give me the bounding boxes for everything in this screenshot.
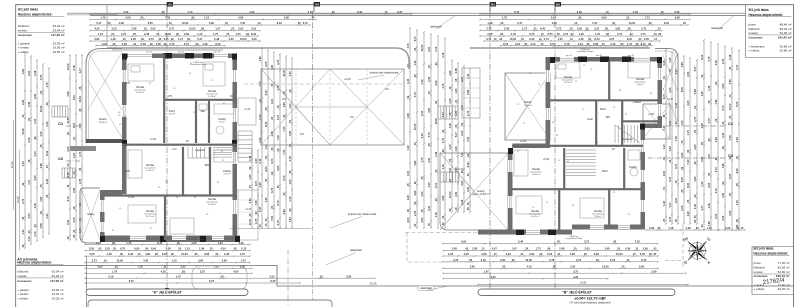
- svg-text:földszint:: földszint:: [18, 24, 30, 28]
- svg-text:Hasznos alapterületek:: Hasznos alapterületek:: [749, 13, 784, 17]
- svg-text:48,46 m²: 48,46 m²: [780, 22, 792, 26]
- building B wall right upper: [658, 57, 663, 128]
- dimension chain top row4 left: [89, 27, 261, 32]
- svg-text:Lépcső: Lépcső: [623, 137, 632, 141]
- svg-text:3,73: 3,73: [434, 183, 438, 189]
- svg-text:65,83 m²: 65,83 m²: [778, 266, 790, 270]
- svg-text:emelet:: emelet:: [18, 29, 28, 33]
- garage roof ridge: [296, 106, 367, 108]
- eave line above A facade: [112, 49, 223, 51]
- svg-text:53,94 m²: 53,94 m²: [52, 274, 64, 278]
- dimension chain right col6: [693, 59, 698, 225]
- svg-text:2,78: 2,78: [721, 58, 725, 64]
- dimension chain mid-left col7: [248, 149, 253, 229]
- building A windows: [100, 54, 237, 241]
- property boundary line top: [67, 13, 746, 15]
- building A terrace right: [238, 190, 258, 240]
- svg-text:1,47: 1,47: [700, 205, 704, 211]
- note csapadékvíz B top: [577, 49, 594, 53]
- B garage roof outline: [440, 153, 508, 230]
- garage roof dashed joints: [296, 69, 367, 145]
- svg-text:+3,15: +3,15: [245, 208, 252, 211]
- svg-text:3,10: 3,10: [427, 205, 431, 211]
- svg-text:pmc 20: pmc 20: [214, 52, 220, 54]
- svg-text:4,10: 4,10: [33, 118, 37, 124]
- svg-text:3,10: 3,10: [288, 71, 292, 77]
- svg-text:1,75: 1,75: [707, 118, 711, 124]
- garage roof diagonals right: [330, 69, 404, 145]
- dimension chain right outer col3: [714, 43, 719, 231]
- svg-text:2,78: 2,78: [441, 52, 445, 58]
- svg-text:+0,70: +0,70: [457, 167, 464, 171]
- svg-text:10,00: 10,00: [66, 63, 70, 70]
- dimension chain right outer col2: [707, 41, 712, 231]
- dimension chain mid-right2 col1: [448, 59, 453, 213]
- section line A1: [165, 12, 169, 292]
- svg-text:csapadékvíz lefolyó: csapadékvíz lefolyó: [577, 51, 594, 53]
- svg-text:pmc 20: pmc 20: [146, 52, 152, 54]
- label telekhatár top-left: [430, 16, 455, 29]
- svg-text:4,10: 4,10: [700, 181, 704, 187]
- svg-text:2,78: 2,78: [413, 210, 417, 216]
- svg-text:3,10: 3,10: [406, 170, 410, 176]
- svg-text:Hasznos alapterületek:: Hasznos alapterületek:: [18, 13, 53, 17]
- svg-text:53,94 m²: 53,94 m²: [53, 29, 65, 33]
- dimension chain top row7 left: [95, 42, 226, 47]
- svg-text:1,10: 1,10: [707, 154, 711, 160]
- svg-text:6,70: 6,70: [276, 200, 280, 206]
- dimension chain top row3 right: [479, 21, 689, 26]
- label építési hely mid: [330, 212, 377, 228]
- dimension chain mid-left col6: [288, 57, 293, 229]
- svg-text:3,73: 3,73: [33, 151, 37, 157]
- svg-text:+ erkély:: + erkély:: [17, 297, 29, 301]
- balcony square right of B: [643, 104, 670, 139]
- svg-text:7,30: 7,30: [686, 159, 690, 165]
- svg-text:B2: B2: [556, 3, 560, 7]
- svg-text:5,47: 5,47: [668, 176, 672, 182]
- building A level marks: [126, 82, 233, 199]
- building B wall bottom right: [572, 225, 645, 230]
- svg-text:14,02 m²: 14,02 m²: [532, 173, 540, 176]
- svg-text:2,60: 2,60: [288, 217, 292, 223]
- svg-text:+0,00: +0,00: [520, 140, 527, 143]
- svg-text:9,84 m²: 9,84 m²: [637, 83, 644, 86]
- svg-text:2,00: 2,00: [427, 46, 431, 52]
- svg-text:3,90: 3,90: [78, 123, 82, 129]
- B garage erkély label: [457, 167, 490, 196]
- svg-text:Szoba: Szoba: [636, 77, 644, 81]
- terrace platform right of A: [238, 98, 256, 125]
- svg-text:1,47: 1,47: [735, 64, 739, 70]
- dimension chain left col4: [39, 63, 44, 238]
- svg-text:8,40: 8,40: [264, 121, 268, 127]
- svg-text:4,30: 4,30: [721, 192, 725, 198]
- svg-text:4,30: 4,30: [668, 57, 672, 63]
- svg-text:7,30: 7,30: [282, 149, 286, 155]
- svg-text:2,48: 2,48: [33, 203, 37, 209]
- svg-text:8,40: 8,40: [680, 87, 684, 93]
- building A room labels: [134, 85, 231, 218]
- svg-text:4,20: 4,20: [454, 146, 458, 152]
- svg-text:4,80: 4,80: [721, 163, 725, 169]
- svg-text:11,58 m²: 11,58 m²: [208, 95, 216, 98]
- svg-text:9,00: 9,00: [276, 165, 280, 171]
- svg-text:4,80: 4,80: [258, 56, 262, 62]
- svg-text:9,00: 9,00: [406, 217, 410, 223]
- dimension chain left col3: [33, 59, 38, 242]
- svg-text:4,80: 4,80: [714, 99, 718, 105]
- svg-text:5,47: 5,47: [413, 36, 417, 42]
- svg-text:"B" JELŰ ÉPÜLET: "B" JELŰ ÉPÜLET: [562, 290, 593, 295]
- svg-text:3,10: 3,10: [258, 158, 262, 164]
- dimension chain mid-right2 col4: [466, 68, 471, 213]
- paving rounded rect below A: [192, 266, 247, 290]
- svg-text:10,00: 10,00: [448, 191, 452, 198]
- building A interior stair: [188, 147, 232, 158]
- exterior stair courtyard B2: [440, 172, 459, 182]
- building A wall left lower: [100, 190, 105, 242]
- svg-text:3,10: 3,10: [72, 95, 76, 101]
- svg-text:1,10: 1,10: [662, 144, 666, 150]
- dimension chain mid-left col2: [264, 49, 269, 229]
- svg-text:1,75: 1,75: [707, 56, 711, 62]
- svg-text:4,10: 4,10: [21, 229, 25, 235]
- svg-text:2,90: 2,90: [72, 187, 76, 193]
- svg-text:5,47: 5,47: [441, 112, 445, 118]
- dimension chain bottom-left row5: [84, 265, 253, 270]
- building B wall top: [550, 57, 662, 62]
- svg-text:6,70: 6,70: [282, 175, 286, 181]
- svg-text:29,56 m²: 29,56 m²: [99, 121, 108, 124]
- svg-text:Szoba: Szoba: [564, 75, 572, 79]
- dimension chain right col5: [686, 57, 691, 225]
- svg-text:2,95: 2,95: [21, 68, 25, 74]
- svg-text:B/1 jelű lakás: B/1 jelű lakás: [749, 8, 769, 12]
- svg-text:2,78: 2,78: [78, 178, 82, 184]
- A/1 block rule extension: [67, 14, 118, 16]
- svg-text:+ erkély:: + erkély:: [18, 50, 30, 54]
- svg-text:6,70: 6,70: [714, 167, 718, 173]
- label telekhatár mid: [326, 248, 362, 265]
- svg-text:3,10: 3,10: [420, 133, 424, 139]
- svg-text:1,10: 1,10: [72, 152, 76, 158]
- svg-text:1,73: 1,73: [686, 130, 690, 136]
- svg-text:pmc 20: pmc 20: [178, 52, 184, 54]
- svg-text:9,00: 9,00: [33, 175, 37, 181]
- svg-text:pince:: pince:: [754, 261, 762, 265]
- svg-text:+3,15: +3,15: [244, 108, 251, 111]
- svg-text:164,42 m²: 164,42 m²: [778, 36, 792, 40]
- section line B2: [553, 12, 557, 296]
- label telekhatár bottom: [417, 286, 448, 291]
- building B interior stair lower: [566, 150, 596, 176]
- svg-text:C1: C1: [728, 121, 734, 126]
- svg-text:2,25: 2,25: [448, 98, 452, 104]
- svg-text:3,73102010,00108,40103,731,001: 3,73102010,00108,40103,731,00101,48928,4…: [486, 37, 657, 41]
- terrace band left of A mid: [70, 146, 96, 151]
- building B: [462, 49, 678, 236]
- svg-text:C1: C1: [58, 121, 64, 126]
- dimension chain bottom-left row7: [84, 274, 376, 279]
- svg-text:4,80: 4,80: [707, 221, 711, 227]
- svg-text:+ erkély:: + erkély:: [749, 49, 761, 53]
- svg-text:1,75: 1,75: [254, 218, 258, 224]
- svg-text:5,31 m²: 5,31 m²: [219, 121, 226, 124]
- building B furniture: [514, 62, 650, 218]
- svg-text:3,10: 3,10: [721, 132, 725, 138]
- dimension chain mid-left col1: [258, 47, 263, 229]
- building A wall left upper: [122, 54, 127, 195]
- svg-text:1,75: 1,75: [45, 82, 49, 88]
- svg-text:63,34 m²: 63,34 m²: [53, 24, 65, 28]
- dimension chain top row5 left: [89, 32, 259, 37]
- building A internal walls: [100, 54, 237, 241]
- svg-text:1,73: 1,73: [78, 151, 82, 157]
- building B interior stair upper: [615, 125, 640, 143]
- svg-text:Erkély: Erkély: [99, 117, 107, 121]
- svg-text:14,02 m²: 14,02 m²: [531, 215, 539, 218]
- svg-text:3,58: 3,58: [39, 163, 43, 169]
- svg-text:52,00 m²: 52,00 m²: [780, 31, 792, 35]
- dimension chain right outer col5: [728, 47, 733, 231]
- svg-text:C2: C2: [728, 153, 734, 158]
- dimension chain mid-right col1: [406, 27, 411, 229]
- svg-text:Fürdő: Fürdő: [629, 165, 637, 169]
- svg-text:1,73: 1,73: [434, 46, 438, 52]
- dimension chain mid-left col5: [282, 55, 287, 229]
- exterior stair right of A: [238, 131, 252, 162]
- svg-text:2,25: 2,25: [668, 87, 672, 93]
- svg-text:20,32 m²: 20,32 m²: [778, 287, 790, 291]
- svg-text:275: 275: [168, 95, 173, 98]
- svg-text:6,70: 6,70: [270, 187, 274, 193]
- property boundary line lower: [16, 266, 794, 287]
- svg-text:+1,55: +1,55: [648, 113, 655, 116]
- building B level marks: [520, 113, 655, 161]
- svg-text:4,20: 4,20: [735, 137, 739, 143]
- dimension chain top row1 right: [479, 10, 691, 15]
- svg-text:7,30: 7,30: [466, 136, 470, 142]
- dimension chain left col inner2: [72, 54, 77, 241]
- dimension chain left col2: [27, 55, 32, 245]
- dimension chain right col4: [680, 55, 685, 225]
- top-right panel divider: [746, 5, 794, 58]
- svg-text:2,95: 2,95: [460, 199, 464, 205]
- dimension chain mid-left col4: [276, 53, 281, 229]
- svg-text:7,30: 7,30: [270, 215, 274, 221]
- svg-text:14,30: 14,30: [580, 281, 587, 285]
- svg-text:4,80: 4,80: [406, 113, 410, 119]
- svg-text:6,70: 6,70: [258, 114, 262, 120]
- svg-text:5,47: 5,47: [454, 132, 458, 138]
- svg-text:2,48: 2,48: [45, 179, 49, 185]
- svg-text:14,30 m²: 14,30 m²: [564, 81, 572, 84]
- svg-text:6,70: 6,70: [662, 94, 666, 100]
- svg-text:2,05: 2,05: [680, 205, 684, 211]
- dimension chain bottom-left row8: [84, 279, 301, 284]
- svg-text:2,90: 2,90: [66, 219, 70, 225]
- svg-text:2,00: 2,00: [264, 61, 268, 67]
- svg-text:B/2 jelű lakás: B/2 jelű lakás: [754, 246, 774, 250]
- garage flat roof outline: [261, 69, 404, 145]
- svg-text:Kád: Kád: [588, 117, 593, 121]
- building B balcony over garage top-left: [505, 73, 550, 140]
- svg-text:1,10: 1,10: [172, 148, 177, 151]
- left margin 14,40 labels: [10, 120, 20, 250]
- exterior stair left upper: [52, 106, 68, 117]
- svg-text:Szoba: Szoba: [208, 89, 216, 93]
- svg-text:4,10: 4,10: [427, 157, 431, 163]
- svg-text:2,60: 2,60: [680, 152, 684, 158]
- svg-text:1,48: 1,48: [248, 155, 252, 161]
- svg-text:7,30: 7,30: [254, 200, 258, 206]
- dimension chain right col1: [662, 49, 667, 225]
- building B wall left lower: [508, 148, 513, 235]
- svg-text:építési hely határvonala: építési hely határvonala: [370, 71, 399, 75]
- svg-text:A2: A2: [315, 3, 319, 7]
- svg-text:1,48: 1,48: [441, 164, 445, 170]
- svg-text:10,00: 10,00: [21, 128, 25, 135]
- building envelope dashed near compass: [665, 225, 683, 268]
- svg-text:2,25: 2,25: [27, 70, 31, 76]
- svg-text:8,40: 8,40: [460, 130, 464, 136]
- building B wall dark piers: [508, 57, 662, 236]
- svg-text:2,60: 2,60: [721, 83, 725, 89]
- text block B/2 lakás areas: [754, 246, 790, 291]
- label telekhatár top-right: [711, 16, 734, 31]
- svg-text:10,00: 10,00: [413, 123, 417, 130]
- dimension chain mid-right2 col2: [454, 62, 459, 213]
- svg-text:1,73: 1,73: [413, 92, 417, 98]
- dimension chain right of B bottom: [645, 226, 746, 231]
- svg-text:pmc 20: pmc 20: [628, 55, 634, 57]
- dimension chain right outer col1: [700, 39, 705, 231]
- svg-text:3,90: 3,90: [686, 71, 690, 77]
- svg-text:1,75: 1,75: [441, 83, 445, 89]
- dimension chain bottom-left row3: [84, 252, 251, 257]
- svg-text:2,05: 2,05: [33, 93, 37, 99]
- svg-text:4,20: 4,20: [288, 103, 292, 109]
- building envelope dashed right-bottom corner: [405, 233, 478, 263]
- svg-text:2,00: 2,00: [254, 158, 258, 164]
- svg-text:5,21 m²: 5,21 m²: [224, 173, 231, 176]
- note csapadékvíz B bottom: [566, 236, 583, 240]
- eave line above B facade: [552, 46, 648, 48]
- svg-text:2,05: 2,05: [700, 123, 704, 129]
- svg-text:4,80: 4,80: [39, 196, 43, 202]
- svg-text:4,20: 4,20: [420, 191, 424, 197]
- svg-text:16,32 m²: 16,32 m²: [136, 91, 144, 94]
- svg-text:6,70: 6,70: [721, 105, 725, 111]
- svg-text:4,20: 4,20: [406, 145, 410, 151]
- svg-text:Szoba: Szoba: [208, 197, 216, 201]
- svg-text:3,10: 3,10: [466, 186, 470, 192]
- svg-text:8,40: 8,40: [686, 182, 690, 188]
- garage roof diagonals left: [261, 69, 330, 145]
- building A wall dark piers: [100, 53, 240, 242]
- dimension 14,30 over B label: [477, 281, 689, 286]
- datum text ±0,00: [569, 296, 610, 304]
- svg-text:1,47: 1,47: [78, 68, 82, 74]
- svg-text:telekhatár: telekhatár: [430, 25, 442, 29]
- svg-text:4,30: 4,30: [448, 123, 452, 129]
- svg-text:5,47: 5,47: [693, 66, 697, 72]
- svg-text:Fürdő: Fürdő: [218, 117, 226, 121]
- dimension chain bottom-right row4: [442, 258, 659, 263]
- svg-text:összesen:: összesen:: [749, 36, 764, 40]
- svg-text:77,26 m²: 77,26 m²: [778, 261, 790, 265]
- svg-text:10,00: 10,00: [282, 70, 286, 77]
- svg-text:23,66 m²: 23,66 m²: [524, 104, 532, 107]
- section flag A2: [314, 2, 320, 12]
- section flag B1: [490, 2, 496, 12]
- svg-text:2,78: 2,78: [288, 156, 292, 162]
- svg-text:3,58: 3,58: [454, 68, 458, 74]
- svg-text:2,48: 2,48: [707, 203, 711, 209]
- svg-text:3,733,10363,10106,702,784,1036: 3,733,10363,10106,702,784,10363,58154,10…: [503, 42, 652, 46]
- dimension chain right col2: [668, 51, 673, 225]
- svg-text:Szoba: Szoba: [531, 209, 539, 213]
- svg-text:15,15 m²: 15,15 m²: [52, 292, 64, 296]
- svg-text:3,90: 3,90: [728, 79, 732, 85]
- svg-text:+ erkély:: + erkély:: [754, 287, 766, 291]
- building B windows: [508, 57, 662, 234]
- svg-text:+2,86: +2,86: [128, 196, 135, 199]
- dimension chain mid-right col2: [413, 29, 418, 229]
- dimension chain bottom-right row2: [442, 247, 659, 252]
- svg-text:2,25: 2,25: [448, 144, 452, 150]
- svg-text:2,48: 2,48: [33, 70, 37, 76]
- building A: [80, 49, 258, 244]
- svg-text:6,70: 6,70: [66, 196, 70, 202]
- text block A/2 lakás areas: [17, 258, 63, 301]
- label építési hely top: [358, 71, 399, 81]
- section flag A1: [167, 2, 173, 12]
- svg-text:14,50 m²: 14,50 m²: [146, 169, 154, 172]
- svg-text:2,25: 2,25: [427, 76, 431, 82]
- note csapadékvíz A top: [190, 62, 207, 66]
- bottom-right panel box: [752, 247, 794, 295]
- svg-text:5,47: 5,47: [674, 163, 678, 169]
- svg-text:csapadékvíz lefolyó: csapadékvíz lefolyó: [566, 238, 583, 240]
- svg-text:8,40: 8,40: [264, 166, 268, 172]
- svg-text:2,05: 2,05: [714, 60, 718, 66]
- dimension chain left col inner3: [78, 54, 83, 241]
- A/2 block border: [86, 256, 88, 307]
- dimension chain right outer col4: [721, 45, 726, 231]
- svg-text:Lépcső: Lépcső: [195, 148, 204, 152]
- svg-text:WC: WC: [201, 109, 206, 113]
- svg-text:25,86 m²: 25,86 m²: [780, 49, 792, 53]
- svg-text:3,90: 3,90: [413, 190, 417, 196]
- svg-text:2,95: 2,95: [21, 99, 25, 105]
- garden fence courtyard middle: [107, 48, 409, 69]
- text block B/1 lakás areas: [749, 8, 792, 53]
- svg-text:2,60: 2,60: [282, 209, 286, 215]
- building envelope dashed top: [244, 83, 404, 85]
- dimension chain mid-right col3: [420, 31, 425, 229]
- svg-text:2,78: 2,78: [72, 65, 76, 71]
- svg-text:10,00: 10,00: [78, 96, 82, 103]
- svg-text:7,30: 7,30: [282, 126, 286, 132]
- svg-text:1,73: 1,73: [33, 231, 37, 237]
- section flag B2: [555, 2, 561, 12]
- svg-text:9,00: 9,00: [674, 197, 678, 203]
- dimension chain top row7 right: [499, 42, 653, 47]
- svg-text:2,95: 2,95: [66, 91, 70, 97]
- building A wall jog: [100, 190, 122, 195]
